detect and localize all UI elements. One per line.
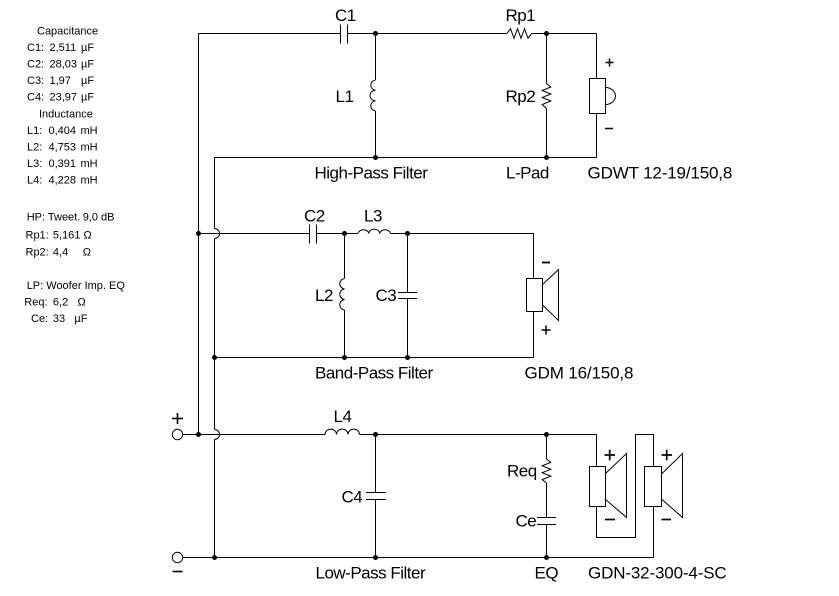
svg-text:C4: C4: [342, 488, 363, 507]
wire: - bus vertical with hops: [215, 158, 220, 558]
label: tweeter polarity -: [605, 128, 613, 130]
node: L4-C4 junction: [373, 432, 378, 437]
svg-text:0,391: 0,391: [49, 158, 77, 170]
svg-text:Ce: Ce: [516, 512, 537, 531]
node: - bus to BPF bottom: [212, 355, 217, 360]
svg-text:L-Pad: L-Pad: [506, 164, 549, 183]
wire: LPF input from + terminal: [183, 434, 326, 436]
notes: capacitance values: [27, 25, 98, 103]
svg-text:C3:: C3:: [27, 75, 44, 87]
svg-text:Capacitance: Capacitance: [37, 25, 98, 37]
svg-text:µF: µF: [81, 75, 94, 87]
node: L2 bottom junction: [342, 355, 347, 360]
wire: LPF top rail L4 to woofer: [360, 434, 597, 436]
capacitor C2: [310, 225, 317, 244]
svg-text:L3:: L3:: [27, 158, 42, 170]
svg-text:GDWT 12-19/150,8: GDWT 12-19/150,8: [588, 164, 733, 183]
svg-text:C3: C3: [376, 286, 397, 305]
capacitor C3: [398, 234, 417, 358]
node: + input junction: [196, 432, 201, 437]
label: woofer1 polarity +: [605, 450, 616, 461]
svg-text:mH: mH: [81, 141, 98, 153]
svg-text:µF: µF: [81, 58, 94, 70]
svg-text:Band-Pass Filter: Band-Pass Filter: [315, 364, 433, 383]
svg-text:C2: C2: [304, 207, 325, 226]
wire: BPF top rail C2 to L3: [317, 233, 359, 235]
svg-text:6,2: 6,2: [53, 297, 68, 309]
svg-text:4,228: 4,228: [49, 174, 77, 186]
label: midrange polarity +: [542, 326, 551, 335]
node: C1-L1 junction: [373, 31, 378, 36]
node: C2-L2-L3 junction: [342, 231, 347, 236]
svg-text:C1: C1: [335, 6, 356, 25]
svg-text:Ω: Ω: [84, 230, 92, 242]
node: Ce bottom junction: [544, 555, 549, 560]
inductor L3: [358, 229, 391, 233]
svg-text:Rp2:: Rp2:: [26, 247, 49, 259]
capacitor C4: [366, 435, 386, 558]
svg-text:C2:: C2:: [27, 58, 44, 70]
svg-text:23,97: 23,97: [50, 91, 78, 103]
wire: BPF top rail left: [199, 233, 310, 235]
wire: + bus vertical: [198, 34, 200, 435]
inductor L4: [325, 429, 360, 434]
node: L3-C3 junction: [405, 231, 410, 236]
node: - bus to LPF bottom: [212, 555, 217, 560]
svg-text:Req: Req: [507, 462, 537, 481]
node: Rp1-Rp2 junction: [544, 31, 549, 36]
node: Rp2 bottom junction: [544, 155, 549, 160]
svg-text:Rp1: Rp1: [506, 6, 536, 25]
svg-text:EQ: EQ: [535, 564, 559, 583]
wire: woofer series link: [597, 435, 654, 538]
svg-text:9,0: 9,0: [83, 211, 98, 223]
label: woofer2 polarity +: [662, 450, 673, 461]
wire: LPF bottom rail: [183, 557, 654, 559]
svg-text:28,03: 28,03: [50, 58, 78, 70]
node: L1 bottom junction: [373, 155, 378, 160]
label: tweeter polarity +: [606, 59, 614, 67]
svg-text:5,161: 5,161: [53, 230, 81, 242]
node: C4 bottom junction: [373, 555, 378, 560]
resistor Rp2: [542, 34, 551, 158]
label: midrange polarity -: [542, 262, 550, 264]
svg-text:0,404: 0,404: [49, 125, 77, 137]
speaker midrange GDM: [527, 234, 559, 358]
notes: inductance values: [27, 108, 98, 186]
svg-text:dB: dB: [101, 211, 114, 223]
svg-text:L1:: L1:: [27, 125, 42, 137]
wire: top rail left segment: [199, 33, 341, 35]
svg-text:L4: L4: [334, 407, 352, 426]
speaker tweeter GDWT: [590, 34, 616, 158]
svg-text:2,511: 2,511: [50, 42, 77, 54]
inductor L2: [340, 234, 345, 358]
svg-text:L2: L2: [315, 286, 333, 305]
svg-text:L3: L3: [364, 207, 382, 226]
svg-text:GDM 16/150,8: GDM 16/150,8: [525, 364, 634, 383]
svg-text:C1:: C1:: [27, 42, 44, 54]
svg-text:L4:: L4:: [27, 174, 42, 186]
speaker woofer 2: [645, 454, 683, 558]
label: woofer2 polarity -: [662, 519, 672, 521]
svg-text:HP: Tweet.: HP: Tweet.: [27, 211, 81, 223]
svg-text:Req:: Req:: [24, 297, 47, 309]
capacitor Ce: [537, 518, 556, 558]
svg-text:mH: mH: [81, 125, 98, 137]
resistor Req: [542, 435, 551, 518]
svg-text:Low-Pass Filter: Low-Pass Filter: [316, 564, 426, 583]
svg-text:4,753: 4,753: [49, 141, 77, 153]
svg-text:mH: mH: [81, 158, 98, 170]
svg-text:µF: µF: [74, 313, 87, 325]
svg-text:1,97: 1,97: [50, 75, 71, 87]
capacitor C1: [341, 25, 348, 44]
svg-text:Rp2: Rp2: [506, 87, 536, 106]
svg-text:High-Pass Filter: High-Pass Filter: [315, 164, 429, 183]
speaker woofer 1: [590, 435, 627, 518]
svg-text:4,4: 4,4: [53, 247, 68, 259]
wire: BPF bottom rail: [215, 357, 534, 359]
wire: top rail Rp1 to tweeter: [532, 33, 597, 35]
label: woofer1 polarity -: [605, 519, 615, 521]
svg-text:Inductance: Inductance: [39, 108, 93, 120]
wire: top rail C1 to Rp1: [348, 33, 508, 35]
svg-text:Ω: Ω: [78, 297, 86, 309]
svg-text:L1: L1: [336, 87, 354, 106]
svg-text:33: 33: [53, 313, 65, 325]
node: C3 bottom junction: [405, 355, 410, 360]
svg-text:L2:: L2:: [27, 141, 42, 153]
resistor Rp1: [507, 29, 532, 39]
svg-text:Ce:: Ce:: [31, 313, 48, 325]
wire: HPF bottom rail: [215, 157, 597, 159]
svg-text:Ω: Ω: [83, 247, 91, 259]
wire: BPF top rail L3 to speaker: [391, 233, 534, 235]
notes: high-pass L-pad values: [26, 211, 115, 258]
svg-text:mH: mH: [81, 174, 98, 186]
svg-text:µF: µF: [81, 91, 94, 103]
svg-text:LP: Woofer Imp. EQ: LP: Woofer Imp. EQ: [27, 280, 126, 292]
inductor L1: [370, 34, 376, 158]
terminal: input -: [172, 552, 182, 571]
node: Req top junction: [544, 432, 549, 437]
svg-text:GDN-32-300-4-SC: GDN-32-300-4-SC: [588, 564, 727, 583]
terminal: input +: [172, 413, 183, 440]
svg-text:µF: µF: [81, 42, 94, 54]
node: + bus to BPF: [196, 231, 201, 236]
notes: low-pass EQ values: [24, 280, 125, 325]
svg-text:Rp1:: Rp1:: [26, 230, 49, 242]
svg-text:C4:: C4:: [27, 91, 44, 103]
